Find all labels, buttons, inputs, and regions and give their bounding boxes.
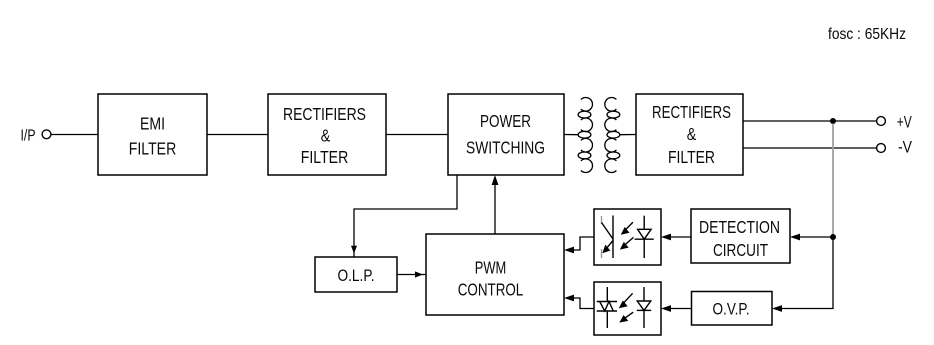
svg-text:&: & bbox=[321, 126, 331, 146]
optocoupler PC2 light arrows bbox=[619, 293, 633, 322]
block PWM CONTROL bbox=[426, 234, 564, 315]
block DETECTION CIRCUIT bbox=[691, 209, 790, 263]
node A junction dot on +V rail bbox=[830, 118, 836, 124]
terminal I/P bbox=[42, 130, 51, 139]
optocoupler PC1 LED bbox=[635, 216, 654, 258]
block O.L.P. bbox=[315, 257, 397, 292]
svg-text:O.V.P.: O.V.P. bbox=[713, 301, 750, 319]
wire +V rail bbox=[743, 120, 877, 122]
svg-text:SWITCHING: SWITCHING bbox=[466, 138, 545, 158]
wire DETECTION CIRCUIT to optocoupler PC1 with arrow bbox=[661, 234, 691, 241]
svg-text:FILTER: FILTER bbox=[301, 147, 349, 167]
wire PWM CONTROL up to POWER SWITCHING with arrow bbox=[492, 175, 499, 234]
svg-text:+V: +V bbox=[897, 112, 912, 131]
wire node B to DETECTION CIRCUIT with arrow bbox=[790, 234, 833, 241]
wire transformer secondary to RECTIFIERS output bbox=[620, 134, 636, 136]
transformer T1 primary winding bbox=[578, 97, 592, 172]
wire RECTIFIERS to POWER SWITCHING bbox=[386, 134, 448, 136]
optocoupler PC2 LED bbox=[637, 287, 651, 328]
svg-text:POWER: POWER bbox=[480, 111, 531, 131]
svg-text:&: & bbox=[687, 124, 697, 144]
svg-text:FILTER: FILTER bbox=[129, 139, 177, 159]
svg-text:DETECTION: DETECTION bbox=[699, 217, 780, 237]
transformer T1 secondary winding bbox=[605, 98, 620, 173]
optocoupler PC1 box bbox=[594, 209, 661, 265]
wire sense line from node A down (gray) bbox=[832, 124, 834, 238]
svg-text:I/P: I/P bbox=[21, 128, 36, 145]
wire POWER SWITCHING down to O.L.P. with arrow bbox=[351, 175, 457, 262]
svg-text:fosc : 65KHz: fosc : 65KHz bbox=[828, 26, 906, 43]
svg-text:RECTIFIERS: RECTIFIERS bbox=[283, 104, 366, 124]
svg-text:-V: -V bbox=[898, 138, 913, 157]
wire optocoupler PC2 to PWM CONTROL with arrow bbox=[564, 295, 594, 309]
node B junction dot bbox=[830, 234, 836, 240]
svg-text:PWM: PWM bbox=[475, 258, 507, 278]
wire node B down to O.V.P. with arrow bbox=[772, 237, 833, 312]
svg-text:FILTER: FILTER bbox=[668, 147, 715, 167]
optocoupler PC1 light arrows bbox=[620, 222, 634, 249]
wire O.L.P. to PWM CONTROL with arrow bbox=[397, 271, 426, 277]
svg-text:EMI: EMI bbox=[140, 114, 165, 134]
optocoupler PC1 phototransistor bbox=[602, 216, 614, 259]
optocoupler PC2 box bbox=[594, 282, 661, 335]
svg-text:CONTROL: CONTROL bbox=[458, 279, 524, 299]
block POWER SWITCHING bbox=[448, 94, 564, 175]
optocoupler PC2 photo-triac bbox=[597, 287, 617, 328]
wire optocoupler PC1 to PWM CONTROL with arrow bbox=[564, 237, 594, 253]
block O.V.P. bbox=[692, 292, 773, 326]
terminal +V bbox=[877, 117, 886, 126]
svg-text:CIRCUIT: CIRCUIT bbox=[713, 240, 768, 260]
svg-text:O.L.P.: O.L.P. bbox=[338, 267, 375, 285]
wire -V rail bbox=[743, 147, 877, 149]
wire I/P to EMI FILTER bbox=[52, 134, 99, 136]
block RECTIFIERS &amp; FILTER (output) bbox=[636, 94, 743, 175]
wire O.V.P. to optocoupler PC2 with arrow bbox=[661, 305, 692, 312]
svg-text:RECTIFIERS: RECTIFIERS bbox=[652, 102, 731, 122]
block RECTIFIERS &amp; FILTER (input) bbox=[268, 94, 386, 175]
wire POWER SWITCHING to transformer primary bbox=[564, 134, 578, 136]
terminal -V bbox=[877, 144, 886, 153]
block EMI FILTER bbox=[98, 94, 207, 175]
wire EMI FILTER to RECTIFIERS bbox=[207, 134, 268, 136]
